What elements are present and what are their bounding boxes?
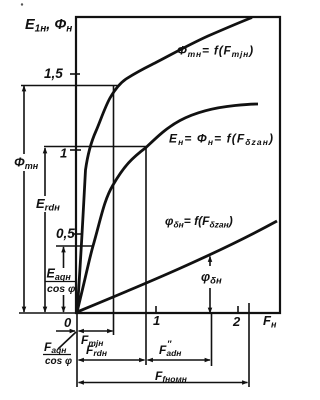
- extension line at x=249: [248, 303, 250, 387]
- curve Phi_m = f(F_mj): [77, 18, 252, 313]
- y tick 1: [70, 149, 81, 151]
- dimension F_mj row1: [79, 330, 113, 332]
- bottom row1: F_aq/cos arrow into origin line: [56, 330, 75, 332]
- dimension E_rd: [44, 148, 46, 312]
- curve E = Phi = f(F_dza): [77, 104, 258, 312]
- axes box: [76, 17, 280, 313]
- curve Phi_delta = f(F_dza): [77, 221, 277, 312]
- extension below axis at origin: [76, 313, 78, 387]
- dimension Phi_m (left outer): [23, 86, 25, 312]
- svg-text:1: 1: [153, 313, 160, 328]
- scan speck: [21, 3, 23, 5]
- aux level line 1.0: [44, 146, 146, 148]
- leader line from F_aq label: [58, 332, 76, 349]
- svg-text:1: 1: [60, 146, 67, 161]
- svg-text:2: 2: [232, 314, 241, 329]
- x-axis extension left of origin: [19, 312, 76, 314]
- dimension F_ad'' row2: [148, 359, 211, 361]
- svg-text:0: 0: [64, 315, 72, 330]
- svg-text:E1н, Φн: E1н, Φн: [25, 17, 72, 35]
- dimension F_rd row2: [79, 359, 145, 361]
- extension below axis at x=212: [211, 313, 213, 366]
- dimension F_fnom row3: [79, 382, 248, 384]
- x tick 1: [155, 306, 157, 313]
- y tick 0,5: [72, 233, 81, 235]
- svg-text:″: ″: [167, 339, 172, 349]
- vertical drop line at x=114: [113, 86, 115, 335]
- dimension E_aq/cos phi arrows: [63, 247, 65, 268]
- vertical drop line at x=146: [145, 147, 147, 366]
- aux level line E_aq/cos: [56, 245, 93, 247]
- svg-text:0,5: 0,5: [56, 226, 75, 241]
- svg-text:cos φ: cos φ: [45, 356, 72, 367]
- svg-text:1,5: 1,5: [44, 66, 63, 81]
- x tick 2: [237, 306, 239, 313]
- dimension Phi_delta arrows: [209, 257, 211, 314]
- aux level line 1.5 (Phi_m level): [21, 85, 118, 87]
- y tick 1,5: [70, 73, 80, 75]
- svg-text:cos φ: cos φ: [47, 283, 76, 295]
